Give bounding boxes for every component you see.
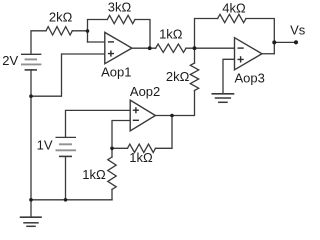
svg-text:2V: 2V [2, 53, 18, 68]
svg-text:1V: 1V [37, 138, 53, 153]
svg-text:2kΩ: 2kΩ [49, 9, 73, 24]
svg-text:Vs: Vs [290, 22, 306, 37]
svg-text:Aop2: Aop2 [130, 84, 160, 99]
svg-text:1kΩ: 1kΩ [159, 26, 183, 41]
svg-text:Aop3: Aop3 [235, 70, 265, 85]
svg-text:4kΩ: 4kΩ [222, 1, 246, 16]
svg-text:3kΩ: 3kΩ [108, 0, 132, 15]
svg-text:1kΩ: 1kΩ [82, 167, 106, 182]
svg-text:Aop1: Aop1 [101, 65, 131, 80]
svg-text:2kΩ: 2kΩ [166, 69, 190, 84]
svg-text:1kΩ: 1kΩ [129, 150, 153, 165]
